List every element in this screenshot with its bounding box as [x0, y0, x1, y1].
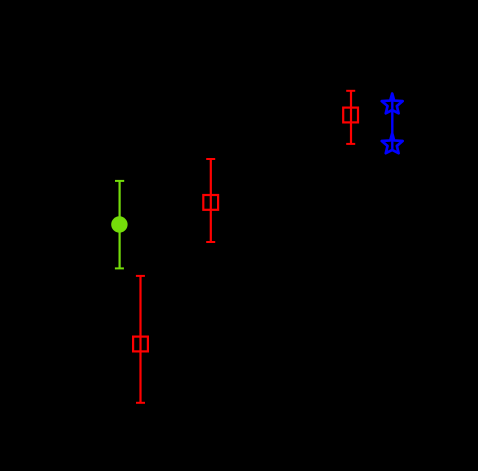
error bar (red point R3, upper right)	[346, 91, 355, 144]
marker: green filled circle G1	[111, 216, 127, 232]
marker: red open square R2	[203, 195, 218, 210]
marker: blue open star B1 (upper)	[382, 94, 403, 114]
error bar (red point R1, lower left)	[136, 276, 145, 403]
marker: red open square R3	[343, 108, 358, 123]
error bar (green point G1)	[115, 181, 124, 269]
error bar (red point R2, middle)	[206, 159, 215, 242]
marker: red open square R1	[133, 337, 148, 352]
marker: blue open star B2 (lower)	[382, 133, 403, 153]
connecting line between blue stars	[391, 98, 393, 150]
